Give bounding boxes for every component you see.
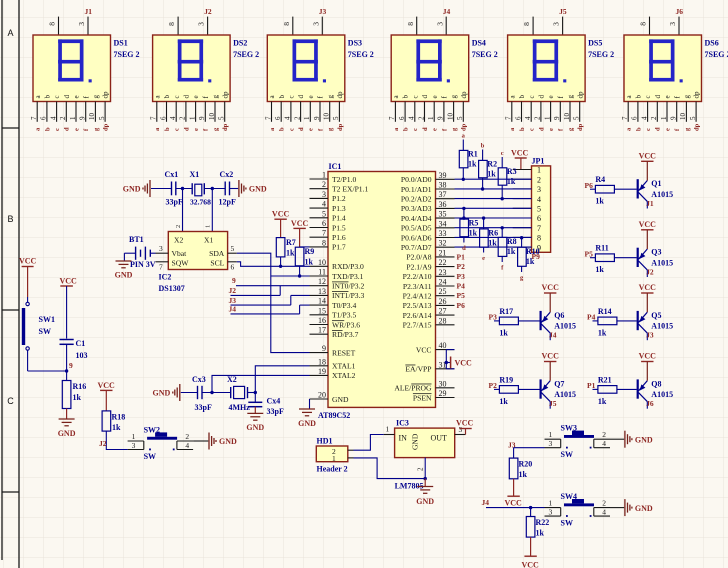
IC1 pin 10 RXD/P3.0 [310, 265, 329, 267]
svg-text:c: c [412, 128, 419, 131]
IC1 pin 28 [436, 324, 455, 326]
svg-text:GND: GND [332, 395, 349, 404]
svg-text:J4: J4 [549, 331, 557, 340]
svg-text:R1: R1 [468, 150, 478, 159]
svg-text:b: b [635, 127, 642, 131]
svg-text:1: 1 [543, 116, 551, 120]
svg-text:P2.1/A9: P2.1/A9 [406, 262, 431, 271]
svg-text:c: c [644, 95, 652, 98]
transistor Q5 A1015 [637, 311, 639, 330]
7-segment display DS6 [649, 17, 651, 35]
resistor R11 [590, 257, 595, 259]
svg-text:1k: 1k [305, 258, 314, 267]
IC1 pin 29 [436, 397, 455, 399]
svg-text:R4: R4 [595, 175, 605, 184]
wire R11 to base of Q3 [614, 257, 636, 259]
IC1 pin 20 GND [310, 398, 329, 400]
svg-text:T1/P3.5: T1/P3.5 [332, 311, 356, 320]
wire net J2 [231, 294, 281, 296]
svg-text:VCC: VCC [456, 419, 474, 428]
node B [211, 187, 214, 190]
svg-text:9: 9 [313, 116, 321, 120]
svg-text:24: 24 [439, 278, 447, 287]
svg-text:7SEG 2: 7SEG 2 [233, 50, 259, 59]
svg-text:EA/VPP: EA/VPP [405, 365, 431, 374]
svg-text:8: 8 [322, 238, 326, 247]
switch SW3 [545, 438, 561, 440]
svg-text:33pF: 33pF [195, 403, 212, 412]
svg-text:R19: R19 [499, 375, 513, 384]
wire P0.2 to JP1 pin 4 [455, 198, 532, 200]
ground at IC1 pin 20 [309, 399, 311, 409]
svg-text:b: b [44, 127, 51, 131]
svg-text:GND: GND [219, 437, 237, 446]
svg-text:R16: R16 [73, 382, 87, 391]
svg-text:VCC: VCC [542, 283, 560, 292]
svg-text:e: e [664, 128, 671, 131]
svg-text:9: 9 [670, 116, 678, 120]
svg-text:VCC: VCC [60, 277, 78, 286]
IC1 pin 8 P1.7 [310, 246, 329, 248]
wire R4 to base of Q1 [614, 188, 636, 190]
svg-text:OUT: OUT [431, 434, 448, 443]
svg-text:37: 37 [439, 190, 447, 199]
svg-text:VCC: VCC [98, 381, 116, 390]
svg-text:9: 9 [79, 116, 87, 120]
IC1 pin 9 RESET [310, 352, 329, 354]
IC1 pin 26 [436, 304, 455, 306]
svg-text:X1: X1 [204, 236, 213, 245]
svg-text:7: 7 [621, 116, 629, 120]
wire XTAL2 pin 19 [212, 375, 310, 392]
svg-text:2: 2 [650, 116, 658, 120]
power ground left of Cx1 [149, 180, 151, 197]
wire P0.6 to JP1 pin 8 [455, 236, 532, 238]
resistor R20 [513, 448, 515, 458]
svg-text:A1015: A1015 [651, 259, 673, 268]
svg-text:SW: SW [561, 450, 573, 459]
svg-text:d: d [297, 95, 305, 99]
svg-text:1k: 1k [73, 393, 82, 402]
svg-text:P2.0/A8: P2.0/A8 [406, 253, 431, 262]
svg-text:1: 1 [386, 425, 390, 434]
IC1 pin 12 INT0/P3.2 [310, 285, 329, 287]
svg-text:R11: R11 [595, 244, 608, 253]
svg-text:1k: 1k [536, 529, 545, 538]
svg-text:TXD/P3.1: TXD/P3.1 [332, 272, 364, 281]
svg-text:Header 2: Header 2 [317, 465, 348, 474]
svg-text:GND: GND [153, 389, 171, 398]
svg-text:R20: R20 [519, 460, 533, 469]
svg-text:d: d [422, 127, 429, 131]
svg-text:AT89C52: AT89C52 [318, 411, 350, 420]
svg-text:10: 10 [88, 113, 96, 121]
svg-text:P0.5/AD5: P0.5/AD5 [401, 224, 432, 233]
IC U1 AT89C52 body [328, 172, 436, 408]
power ground right of SW4 [624, 499, 626, 516]
svg-text:1k: 1k [507, 177, 516, 186]
crystal X1 32.768 [191, 183, 193, 194]
svg-text:c: c [288, 128, 295, 131]
wire R17 to base of Q6 [518, 320, 539, 322]
svg-text:3: 3 [549, 508, 553, 517]
power VCC (IC1 pin 40/31) [450, 357, 452, 369]
svg-text:P0.2/AD2: P0.2/AD2 [401, 195, 432, 204]
svg-text:J3: J3 [646, 331, 654, 340]
resistor R9 [293, 227, 305, 229]
svg-text:P9: P9 [532, 252, 541, 261]
svg-text:c: c [173, 95, 181, 98]
sheet border frame [1, 0, 3, 560]
svg-text:P1.6: P1.6 [332, 233, 346, 242]
svg-text:10: 10 [563, 113, 571, 121]
svg-text:dp: dp [336, 91, 344, 99]
svg-text:A1015: A1015 [554, 322, 576, 331]
wire Cx3 to X2 [202, 392, 231, 394]
svg-text:1k: 1k [598, 328, 607, 337]
JP1 pin 6 [513, 217, 532, 219]
svg-text:XTAL2: XTAL2 [332, 371, 356, 380]
svg-text:9: 9 [69, 361, 73, 370]
IC IC3 LM7805 body [395, 428, 455, 458]
svg-text:23: 23 [439, 268, 447, 277]
svg-text:e: e [548, 128, 555, 131]
wire SW1 to reset node [28, 370, 67, 372]
svg-text:A1015: A1015 [554, 390, 576, 399]
display body DS1 [33, 35, 111, 102]
svg-text:b: b [278, 95, 286, 99]
svg-text:SQW: SQW [172, 258, 190, 267]
svg-text:32.768: 32.768 [190, 198, 211, 207]
svg-text:SW4: SW4 [561, 492, 577, 501]
svg-text:7: 7 [388, 116, 396, 120]
capacitor Cx3 33pF [197, 386, 199, 399]
svg-text:JP1: JP1 [532, 157, 545, 166]
svg-text:1: 1 [322, 171, 326, 180]
svg-text:g: g [450, 95, 458, 99]
svg-text:1: 1 [549, 499, 553, 508]
svg-text:1k: 1k [507, 247, 516, 256]
svg-text:P0.7/AD7: P0.7/AD7 [401, 243, 432, 252]
svg-text:R17: R17 [499, 307, 513, 316]
svg-text:36: 36 [439, 200, 447, 209]
svg-text:DS5: DS5 [588, 39, 602, 48]
svg-text:17: 17 [318, 326, 326, 335]
IC1 pin 36 [436, 207, 455, 209]
IC1 pin 15 T1/P3.5 [310, 314, 329, 316]
ground at battery [123, 253, 125, 261]
svg-text:7SEG 2: 7SEG 2 [705, 50, 728, 59]
svg-text:4: 4 [602, 439, 606, 448]
IC1 pin 11 TXD/P3.1 [310, 275, 329, 277]
svg-text:c: c [645, 128, 652, 131]
svg-text:A1015: A1015 [651, 322, 673, 331]
svg-text:J1: J1 [646, 199, 654, 208]
svg-text:R3: R3 [507, 167, 517, 176]
svg-text:P0.4/AD4: P0.4/AD4 [401, 214, 432, 223]
svg-text:12pF: 12pF [219, 198, 236, 207]
svg-text:dp: dp [337, 123, 344, 131]
wire Cx1 to X1 [176, 188, 192, 190]
svg-text:1k: 1k [488, 239, 497, 248]
IC1 pin 5 P1.4 [310, 217, 329, 219]
svg-text:P0.0/AD0: P0.0/AD0 [401, 175, 432, 184]
resistor R22 [530, 508, 532, 517]
svg-text:4: 4 [408, 116, 416, 120]
svg-text:5: 5 [332, 116, 340, 120]
IC1 pin 21 [436, 256, 455, 258]
transistor Q6 A1015 [540, 311, 542, 330]
node XTAL1 [254, 391, 257, 394]
wire R19 to base of Q7 [518, 388, 539, 390]
svg-text:19: 19 [318, 367, 326, 376]
svg-text:b: b [44, 95, 52, 99]
svg-text:dp: dp [693, 91, 701, 99]
IC1 pin 1 T2/P1.0 [310, 178, 329, 180]
svg-text:e: e [73, 95, 81, 98]
svg-text:7: 7 [322, 229, 326, 238]
svg-text:RXD/P3.0: RXD/P3.0 [332, 262, 364, 271]
JP1 pin 7 [513, 227, 532, 229]
svg-text:10: 10 [446, 113, 454, 121]
svg-text:3: 3 [311, 22, 320, 26]
svg-text:2: 2 [602, 499, 606, 508]
wire net J3 to pin 13 [231, 304, 291, 306]
IC1 pin 39 [436, 178, 455, 180]
wire HD1 pin2 to IC3 IN [354, 435, 384, 451]
wire pin40 to VCC [446, 349, 454, 351]
svg-text:VCC: VCC [511, 149, 529, 158]
IC1 pin 35 [436, 217, 455, 219]
svg-text:HD1: HD1 [317, 437, 333, 446]
svg-text:5: 5 [689, 116, 697, 120]
svg-text:7: 7 [150, 116, 158, 120]
svg-text:R8: R8 [507, 237, 517, 246]
svg-text:1: 1 [188, 116, 196, 120]
svg-text:Cx3: Cx3 [192, 375, 206, 384]
wire XTAL1 pin 18 [255, 366, 309, 393]
svg-text:GND: GND [246, 423, 264, 432]
svg-text:dp: dp [221, 91, 229, 99]
svg-text:P2.3/A11: P2.3/A11 [403, 282, 432, 291]
svg-text:d: d [64, 127, 71, 131]
svg-text:SW: SW [144, 452, 156, 461]
svg-text:4: 4 [640, 116, 648, 120]
wire net J4 to pin 14 [231, 313, 300, 315]
7-segment display DS1 [58, 17, 60, 35]
svg-text:R14: R14 [598, 307, 612, 316]
svg-text:GND: GND [58, 429, 76, 438]
svg-text:10: 10 [679, 113, 687, 121]
transistor Q7 A1015 [540, 379, 542, 398]
svg-text:e: e [664, 95, 672, 98]
svg-text:1: 1 [69, 116, 77, 120]
svg-text:X2: X2 [174, 236, 183, 245]
svg-text:J4: J4 [443, 7, 451, 16]
ground below Cx4 [247, 412, 263, 414]
svg-text:Q6: Q6 [554, 311, 564, 320]
svg-text:30: 30 [439, 379, 447, 388]
svg-text:P5: P5 [585, 250, 594, 259]
svg-text:b: b [635, 95, 643, 99]
svg-text:3: 3 [197, 22, 206, 26]
svg-text:5: 5 [537, 205, 541, 214]
svg-text:3: 3 [159, 244, 163, 253]
svg-text:A: A [7, 28, 13, 38]
svg-text:21: 21 [439, 248, 447, 257]
resistor R14 [593, 320, 598, 322]
resistor R21 [593, 388, 598, 390]
7-segment display DS5 [532, 17, 534, 35]
svg-text:e: e [482, 255, 485, 262]
svg-text:1: 1 [132, 432, 136, 441]
wire R14 to base of Q5 [617, 320, 637, 322]
svg-text:1: 1 [549, 430, 553, 439]
svg-text:20: 20 [318, 391, 326, 400]
node reset junction / net label 9 [65, 369, 68, 372]
wire node A to IC2 X2 pin [182, 189, 184, 232]
svg-text:dp: dp [694, 123, 701, 131]
svg-text:g: g [567, 95, 575, 99]
svg-text:b: b [279, 127, 286, 131]
svg-text:ALE/PROG: ALE/PROG [394, 384, 432, 393]
svg-text:b: b [518, 95, 526, 99]
IC2 pin 3 Vbat [156, 252, 169, 254]
svg-text:1k: 1k [487, 170, 496, 179]
wire P0.7 to JP1 pin 9 [455, 246, 532, 248]
svg-text:d: d [63, 95, 71, 99]
svg-text:GND: GND [411, 433, 420, 450]
resistor R2 [482, 150, 484, 161]
svg-text:9: 9 [322, 344, 326, 353]
svg-text:e: e [547, 95, 555, 98]
svg-text:15: 15 [318, 306, 326, 315]
svg-text:WR/P3.6: WR/P3.6 [332, 320, 360, 329]
svg-text:28: 28 [439, 316, 447, 325]
capacitor Cx1 33pF [171, 182, 173, 196]
svg-text:3: 3 [668, 22, 677, 26]
svg-text:4: 4 [524, 116, 532, 120]
svg-text:26: 26 [439, 297, 447, 306]
svg-text:7SEG 2: 7SEG 2 [472, 50, 498, 59]
svg-text:11: 11 [318, 268, 326, 277]
power VCC below R22 [524, 555, 536, 557]
svg-text:J6: J6 [646, 399, 654, 408]
svg-text:29: 29 [439, 389, 447, 398]
IC1 pin 7 P1.6 [310, 236, 329, 238]
svg-text:P1.7: P1.7 [332, 243, 346, 252]
svg-text:b: b [481, 143, 485, 150]
svg-text:VCC: VCC [639, 283, 657, 292]
svg-text:Cx4: Cx4 [267, 397, 281, 406]
ground below R16 [59, 418, 75, 420]
wire P0.3 to JP1 pin 5 [455, 207, 532, 209]
svg-text:VCC: VCC [455, 359, 473, 368]
svg-text:A1015: A1015 [651, 190, 673, 199]
svg-text:2: 2 [417, 116, 425, 120]
svg-text:SW1: SW1 [39, 315, 55, 324]
svg-text:XTAL1: XTAL1 [332, 362, 356, 371]
svg-text:2: 2 [175, 225, 182, 228]
wire X2 to node XTAL1 [248, 392, 256, 394]
wire collector Q3 / net label J2 [646, 270, 648, 277]
svg-text:DS2: DS2 [233, 39, 247, 48]
svg-text:GND: GND [298, 419, 316, 428]
svg-text:IC2: IC2 [159, 273, 172, 282]
power ground right of Cx2 [238, 180, 240, 197]
svg-text:J5: J5 [559, 7, 567, 16]
power ground right of SW2 [208, 433, 210, 450]
svg-text:dp: dp [576, 91, 584, 99]
svg-text:PSEN: PSEN [413, 393, 432, 402]
svg-text:Vbat: Vbat [172, 249, 188, 258]
IC1 pin 38 [436, 188, 455, 190]
IC3 pin 2 to ground [424, 458, 426, 479]
resistor R1 [462, 140, 464, 151]
svg-text:J4: J4 [482, 498, 490, 507]
JP1 pin 4 [513, 198, 532, 200]
svg-text:7: 7 [30, 116, 38, 120]
svg-text:c: c [411, 95, 419, 98]
svg-text:7SEG 2: 7SEG 2 [348, 50, 374, 59]
svg-text:dp: dp [222, 123, 229, 131]
svg-text:C: C [7, 396, 14, 406]
IC1 pin 13 INT1/P3.3 [310, 294, 329, 296]
JP1 pin 3 [513, 188, 532, 190]
svg-text:2: 2 [322, 180, 326, 189]
svg-text:DS4: DS4 [472, 39, 486, 48]
svg-text:DS3: DS3 [348, 39, 362, 48]
svg-text:10: 10 [208, 113, 216, 121]
svg-text:7: 7 [505, 116, 513, 120]
HD1 pin 1 stub [348, 457, 354, 459]
resistor R4 [590, 188, 595, 190]
resistor R8 [501, 228, 503, 238]
display body DS4 [391, 35, 469, 102]
svg-text:5: 5 [218, 116, 226, 120]
svg-text:3: 3 [77, 22, 86, 26]
wire SDA to reset line [237, 253, 310, 352]
IC1 pin 18 XTAL1 [310, 365, 329, 367]
svg-text:34: 34 [439, 219, 447, 228]
svg-text:X1: X1 [190, 170, 200, 179]
svg-text:3: 3 [435, 22, 444, 26]
svg-text:c: c [288, 95, 296, 98]
svg-text:4: 4 [185, 441, 189, 450]
svg-text:b: b [403, 127, 410, 131]
svg-text:d: d [655, 127, 662, 131]
wire SW2 to gnd [193, 440, 208, 442]
svg-text:P0.3/AD3: P0.3/AD3 [401, 204, 432, 213]
IC1 pin 2 T2 EX/P1.1 [310, 188, 329, 190]
svg-text:R9: R9 [305, 247, 315, 256]
svg-text:J2: J2 [229, 286, 237, 295]
svg-text:27: 27 [439, 307, 447, 316]
JP1 pin 8 [513, 236, 532, 238]
resistor R3 [501, 157, 503, 168]
svg-text:4MHz: 4MHz [229, 403, 251, 412]
svg-text:8: 8 [406, 22, 415, 26]
JP1 pin 2 [513, 178, 532, 180]
svg-text:6: 6 [159, 116, 167, 120]
svg-text:d: d [298, 127, 305, 131]
svg-text:J2: J2 [99, 439, 107, 448]
svg-text:7SEG 2: 7SEG 2 [114, 50, 140, 59]
transistor Q8 A1015 [637, 379, 639, 398]
wire HD1 pin1 to ground [354, 458, 426, 479]
wire collector Q1 / net label J1 [646, 201, 648, 208]
svg-text:P2.2/A10: P2.2/A10 [403, 272, 432, 281]
